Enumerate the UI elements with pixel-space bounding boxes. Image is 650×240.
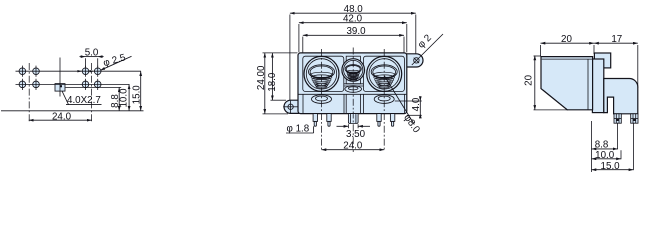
svg-text:39.0: 39.0	[346, 26, 366, 37]
svg-text:15.0: 15.0	[601, 161, 621, 172]
svg-text:5.0: 5.0	[85, 48, 99, 59]
svg-text:15.0: 15.0	[132, 85, 143, 105]
svg-text:42.0: 42.0	[343, 14, 363, 25]
svg-text:10.0: 10.0	[119, 88, 130, 108]
svg-text:3.50: 3.50	[346, 129, 366, 140]
svg-text:4.0: 4.0	[411, 97, 422, 111]
svg-text:24.00: 24.00	[256, 65, 267, 90]
svg-text:4.0X2.7: 4.0X2.7	[67, 95, 101, 106]
svg-text:24.0: 24.0	[343, 140, 363, 151]
svg-text:20: 20	[561, 34, 572, 45]
svg-text:8.8: 8.8	[595, 140, 609, 151]
svg-text:17: 17	[611, 34, 622, 45]
svg-text:10.0: 10.0	[595, 150, 615, 161]
svg-text:20: 20	[524, 74, 535, 85]
svg-text:18.0: 18.0	[267, 72, 278, 92]
svg-text:24.0: 24.0	[52, 111, 72, 122]
